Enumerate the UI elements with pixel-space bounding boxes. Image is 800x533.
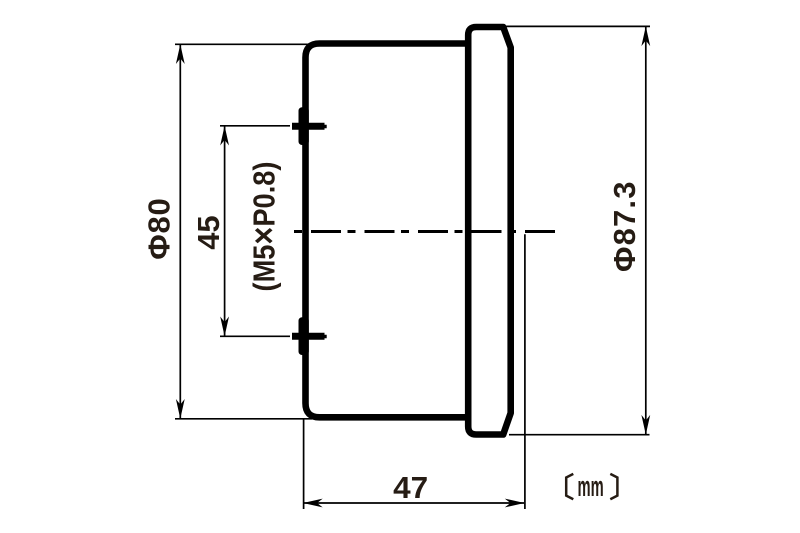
dimension Phi87.3: extension line bottom <box>509 434 650 436</box>
svg-text:45: 45 <box>191 215 226 249</box>
dimension 47: extension line left <box>303 420 305 510</box>
dimension 47: extension line right <box>524 234 526 509</box>
center line (dash-dot axis) <box>294 230 557 233</box>
front bezel ring <box>468 27 511 435</box>
dimension 45: extension line top <box>220 125 290 127</box>
svg-text:mm: mm <box>578 471 604 503</box>
svg-text:Φ87.3: Φ87.3 <box>607 182 642 272</box>
dimension 47: arrow left <box>303 499 323 508</box>
mounting stud pad (top) <box>299 107 309 145</box>
unit note bracket right <box>610 474 617 499</box>
svg-text:Φ80: Φ80 <box>142 198 177 260</box>
dimension 45: arrow up <box>220 126 229 146</box>
dimension Phi80: arrow down <box>176 399 185 419</box>
dimension Phi87.3: arrow up <box>641 26 650 46</box>
mounting stud M5 (top) <box>292 123 327 130</box>
mounting stud M5 (bottom) <box>292 333 327 340</box>
gauge body (case, side view) <box>306 44 469 418</box>
dimension Phi80: extension line top <box>175 43 312 45</box>
dimension 45: extension line bottom <box>220 335 290 337</box>
svg-text:(M5×P0.8): (M5×P0.8) <box>245 161 284 291</box>
dimension Phi87.3: arrow down <box>641 415 650 435</box>
dimension 47: arrow right <box>505 499 525 508</box>
svg-text:47: 47 <box>393 470 428 505</box>
dimension 45: arrow down <box>220 317 229 337</box>
dimension 47: dimension line <box>304 502 524 504</box>
dimension Phi80: extension line bottom <box>175 418 312 420</box>
dimension Phi87.3: extension line top <box>490 25 650 27</box>
dimension Phi80: arrow up <box>176 44 185 64</box>
dimension Phi80: dimension line <box>179 45 181 419</box>
mounting stud pad (bottom) <box>299 317 309 355</box>
dimension Phi87.3: dimension line <box>645 27 647 435</box>
dimension 45: dimension line <box>224 126 226 336</box>
unit note bracket left <box>566 474 573 499</box>
